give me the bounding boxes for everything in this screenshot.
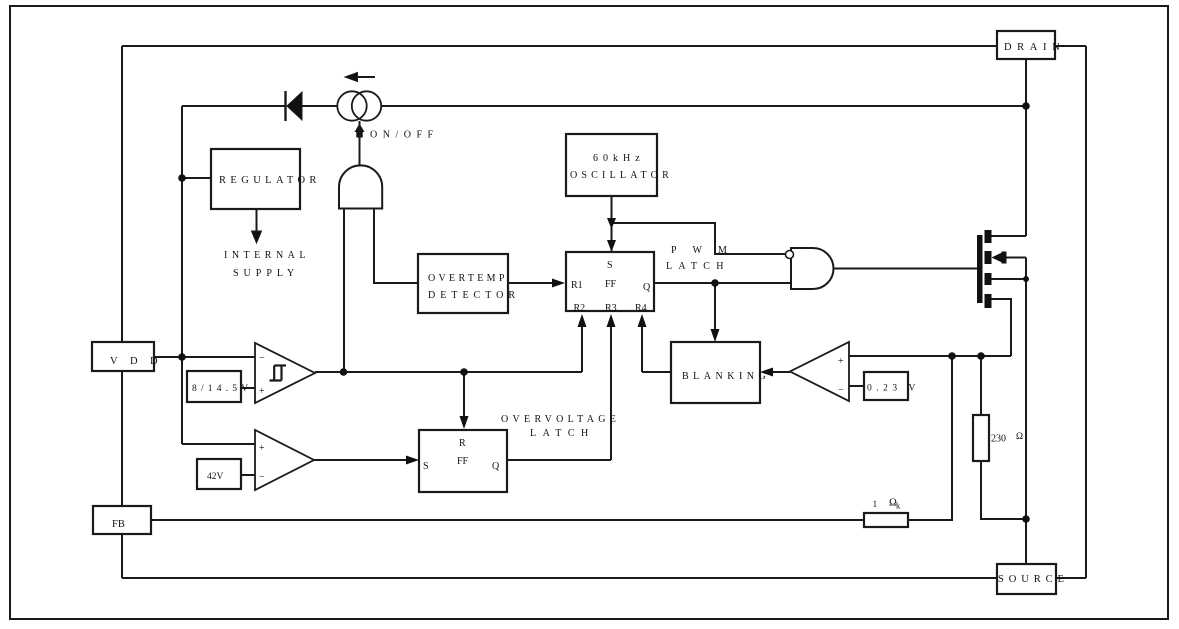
arrow into BLANKING top [711,329,720,342]
wire comparator U5 output to BLANKING [772,371,790,373]
wire source sense rail [1025,258,1027,565]
arrow into R4 [638,314,647,327]
stub3 [985,273,992,285]
8/14.5V reference box [187,371,241,402]
IC boundary left edge lower [121,371,123,506]
regulator output arrow [252,209,262,243]
arrow into R2 [578,314,587,327]
node sense junction 1 [948,352,956,360]
pin DRAIN box [997,31,1055,59]
wire to comparator U4 plus [182,443,255,445]
svg-text:DRAIN: DRAIN [1004,42,1065,53]
svg-text:DETECTOR: DETECTOR [428,290,520,301]
svg-text:S: S [423,461,429,472]
wire R3 riser [610,318,612,460]
pin VDD box [92,342,154,371]
wire current limit comparator plus [849,355,1011,357]
drain stub [985,230,992,243]
wire FF Q to AND2 [654,282,791,284]
arrow into OV latch S [406,456,419,465]
wire U4 output to OV latch S [314,459,410,461]
arrow oscillator branch node [607,218,616,229]
wire VDD to comparator [154,356,255,358]
svg-text:V: V [909,384,916,394]
oscillator box [566,134,657,196]
wire DRAIN pin down [1025,59,1027,236]
IC boundary bottom edge [122,577,997,579]
comparator U4 overvoltage [255,430,314,490]
wire BLANKING to R4 [642,371,671,373]
body stub [985,251,992,264]
resistor 1k ohm [864,513,908,527]
0.23V reference box [864,372,908,400]
current direction arrow [345,73,375,82]
IC boundary top edge [122,45,997,47]
node sense junction 2 [977,352,985,360]
svg-text:230: 230 [991,434,1006,445]
wire FB to 1k resistor [151,519,864,521]
gate bar [977,235,983,303]
AND gate U7 output [791,248,833,289]
svg-text:BLANKING: BLANKING [682,371,770,382]
wire to OV latch R [463,372,465,418]
svg-text:−: − [838,385,844,396]
node source junction [1022,515,1030,523]
arrow into BLANKING right [760,368,773,377]
MOSFET Q1 [977,230,1007,308]
svg-text:INTERNAL: INTERNAL [224,250,310,261]
node drain junction [1022,102,1030,110]
svg-text:R3: R3 [605,303,617,314]
wire AND1 left leg [343,208,345,372]
svg-text:FF: FF [605,279,617,290]
svg-text:R2: R2 [574,303,586,314]
svg-text:OVERTEMP.: OVERTEMP. [428,273,512,284]
IC boundary left edge [121,46,123,342]
svg-text:Q: Q [492,461,500,472]
wire body stub [1004,257,1026,259]
svg-text:+: + [838,356,844,367]
node Q blanking junction [711,279,719,287]
svg-text:LATCH: LATCH [530,428,595,439]
svg-text:Q: Q [643,282,651,293]
svg-text:60kHz: 60kHz [593,153,645,164]
hysteresis glyph [270,366,287,381]
svg-text:LATCH: LATCH [666,261,730,272]
source stub [985,294,992,308]
node stub3 junction [1023,276,1029,282]
AND gate U6 on/off [339,165,382,208]
svg-text:REGULATOR: REGULATOR [219,175,321,186]
svg-text:FF: FF [457,456,469,467]
arrow into R3 [607,314,616,327]
svg-text:SUPPLY: SUPPLY [233,268,299,279]
wire AND2 output to gate [834,268,977,270]
IC boundary left edge lowest [121,534,123,578]
comparator U5 current limit [790,342,849,401]
wire 230ohm top [980,356,982,415]
svg-text:8/14.5V: 8/14.5V [192,384,252,394]
pin FB box [93,506,151,534]
wire drain stub [991,235,1026,237]
svg-text:+: + [259,443,265,454]
wire OV latch Q to R3 [507,459,611,461]
wire stub3 to rail [991,278,1026,280]
wire right rail to SOURCE [1056,577,1086,579]
wire oscillator branch to AND2 [612,223,788,254]
wire R4 riser [641,318,643,372]
wire on/off stem [359,121,361,187]
svg-text:R4: R4 [635,303,647,314]
42V reference box [197,459,241,489]
wire oscillator to S [611,196,613,252]
wire comparator U3 output [315,371,582,373]
overvoltage latch FF box [419,430,507,492]
wire AND1 right leg [374,208,418,283]
svg-text:FB: FB [112,519,125,530]
wire 8/14.5V to comparator [241,387,255,389]
wire top supply rail [182,105,285,107]
svg-text:−: − [259,472,265,483]
svg-text:0.23: 0.23 [867,384,902,394]
arrowheads [406,218,773,465]
diode D1 [286,91,303,121]
svg-text:PWM: PWM [671,245,743,256]
wire R2 riser [581,318,583,372]
wire DRAIN box to right rail [1055,45,1086,47]
node regulator tap [178,174,186,182]
wire overtemp to R1 [508,282,560,284]
wire regulator input [182,177,211,179]
pin SOURCE box [997,564,1056,594]
wire Q branch to BLANKING [714,283,716,331]
regulator box [211,149,300,209]
svg-text:S: S [607,260,613,271]
svg-text:OSCILLATOR: OSCILLATOR [570,170,673,181]
svg-text:ON/OFF: ON/OFF [370,130,439,141]
arrow into FF R1 [552,279,565,288]
node AND1 leg junction [340,368,348,376]
svg-text:R: R [459,438,466,449]
node VDD tap [178,353,186,361]
arrow into OV latch R [460,416,469,429]
svg-text:VDD: VDD [110,356,170,367]
svg-text:1: 1 [873,500,878,510]
boxes [92,31,1056,594]
comparator U3 undervoltage (hysteresis) [255,343,315,403]
resistor 230 ohm [973,415,989,461]
wire 1k resistor to sense node [908,356,952,520]
svg-text:+: + [259,386,265,397]
wire diode to current source [302,105,337,107]
wire current source to drain node [382,105,1026,107]
inverter bubble on U7 input [786,251,794,259]
wire 42V to comparator U4 [241,474,255,476]
svg-text:SOURCE: SOURCE [998,574,1069,585]
wire source stub down [991,299,1011,356]
wire right rail vertical [1085,46,1087,578]
svg-text:R1: R1 [571,280,583,291]
svg-text:OVERVOLTAGE: OVERVOLTAGE [501,414,620,425]
overtemp detector box [418,254,508,313]
PWM latch FF box [566,252,654,311]
wire left vertical bus [181,106,183,444]
blanking box [671,342,760,403]
svg-text:−: − [259,353,265,364]
on/off control arrow into current source [355,124,365,138]
node OV latch R junction [460,368,468,376]
body arrow [992,252,1004,263]
wire 0.23V to comparator minus [849,385,864,387]
current source symbol [337,91,381,120]
arrow into FF S [607,240,616,252]
svg-text:Ω: Ω [1016,432,1023,442]
wire 230ohm bottom [981,461,1026,519]
svg-text:42V: 42V [207,472,224,482]
